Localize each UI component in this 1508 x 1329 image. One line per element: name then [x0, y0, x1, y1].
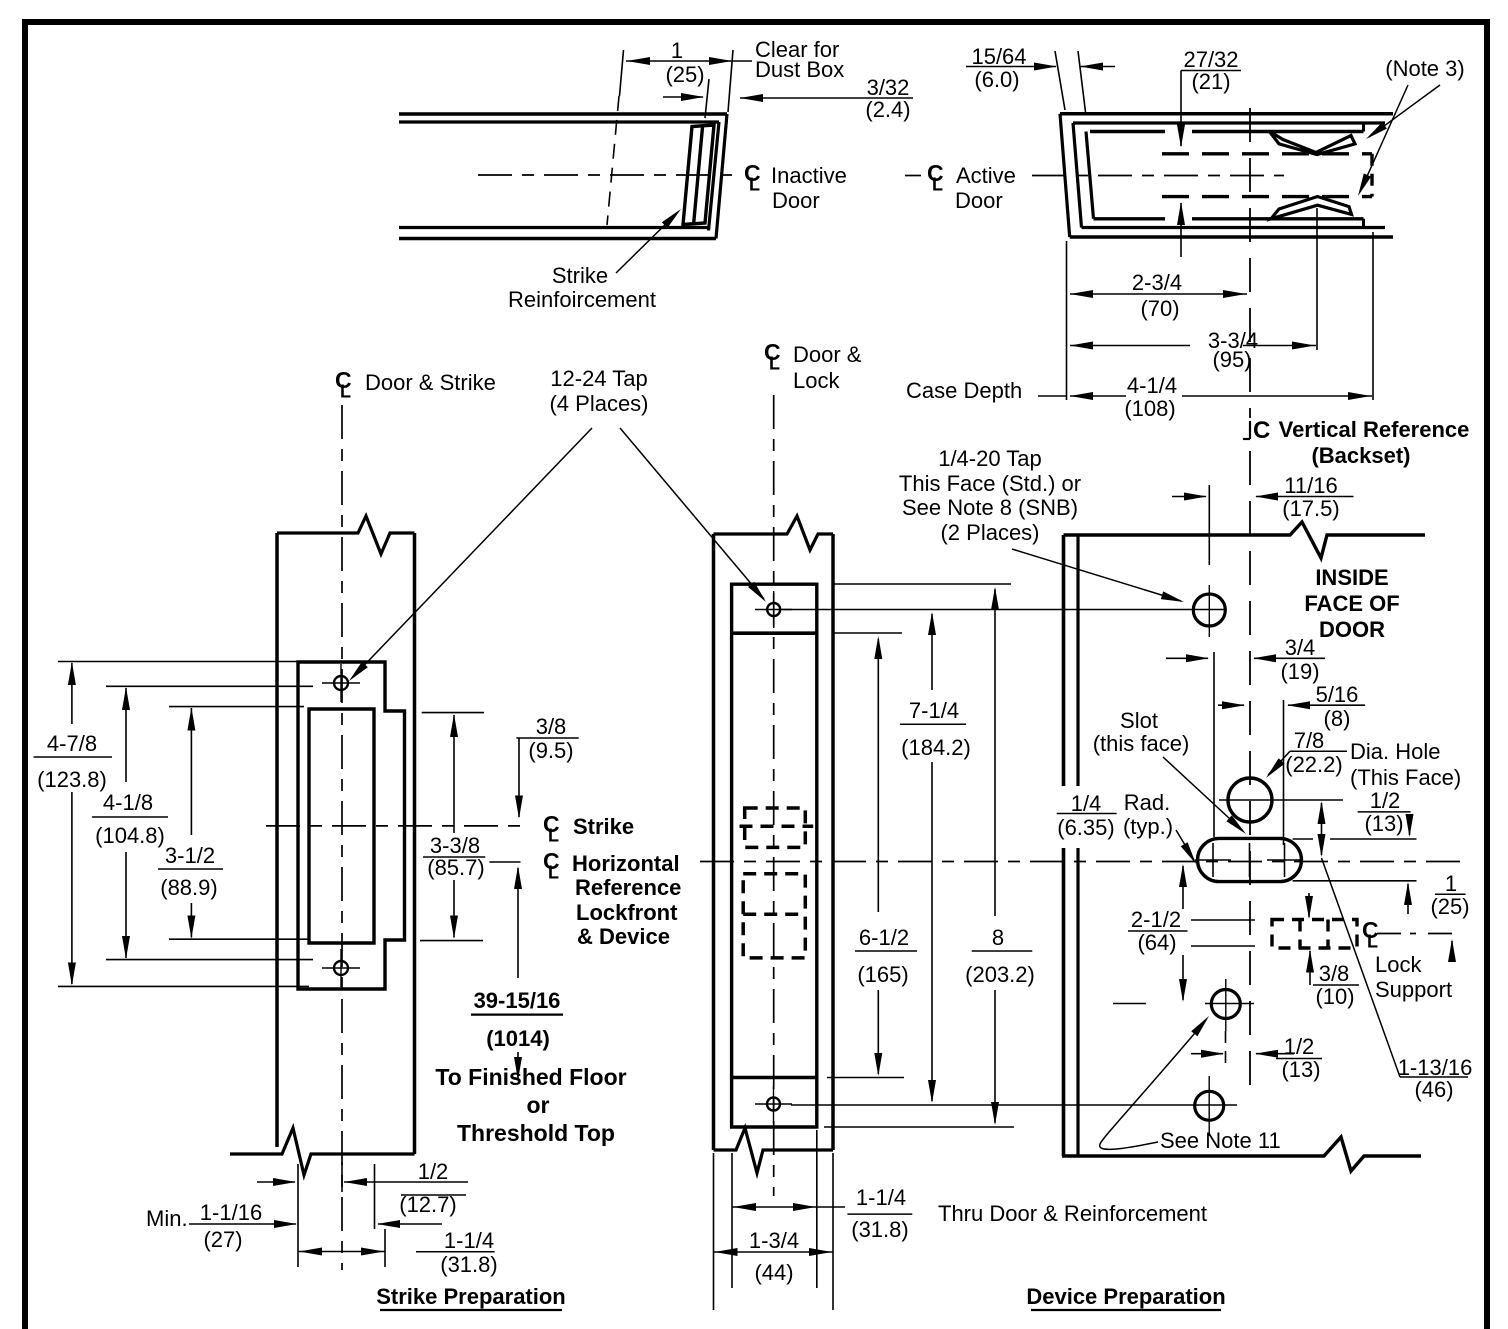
strike cutout [309, 709, 374, 943]
extension line slot right [1283, 700, 1285, 845]
svg-text:Reference: Reference [575, 875, 681, 900]
svg-text:4-1/8: 4-1/8 [103, 790, 153, 815]
svg-text:L: L [932, 175, 943, 195]
svg-text:1-1/4: 1-1/4 [444, 1228, 494, 1253]
svg-text:3/8: 3/8 [1319, 961, 1350, 986]
svg-text:(104.8): (104.8) [95, 823, 165, 848]
leader 12-24 tap to strike screw [352, 428, 592, 678]
svg-text:(31.8): (31.8) [440, 1252, 497, 1277]
svg-text:(88.9): (88.9) [160, 875, 217, 900]
svg-text:(10): (10) [1315, 984, 1354, 1009]
svg-text:Lockfront: Lockfront [576, 900, 678, 925]
strike centerline horizontal [266, 825, 523, 827]
svg-text:(184.2): (184.2) [901, 735, 971, 760]
svg-text:C: C [1253, 417, 1270, 444]
svg-text:(21): (21) [1191, 69, 1230, 94]
svg-text:Rad.: Rad. [1124, 790, 1170, 815]
svg-text:(2 Places): (2 Places) [940, 520, 1039, 545]
svg-text:L: L [340, 382, 351, 402]
svg-text:Strike: Strike [573, 814, 634, 839]
svg-text:(25): (25) [1430, 894, 1469, 919]
svg-text:(17.5): (17.5) [1282, 496, 1339, 521]
svg-text:Door &: Door & [793, 342, 862, 367]
deadbolt dashed box [743, 874, 805, 958]
extension lines strike right [422, 712, 484, 714]
hole A dashed line down [1225, 1031, 1227, 1071]
strike screw hole top [334, 676, 348, 690]
svg-text:(9.5): (9.5) [528, 738, 573, 763]
svg-text:Min.: Min. [146, 1206, 188, 1231]
svg-text:Vertical Reference: Vertical Reference [1279, 417, 1470, 442]
spring clip bottom (Note 3) [1271, 197, 1352, 219]
svg-text:Support: Support [1375, 977, 1452, 1002]
strike screw hole bottom [334, 961, 348, 975]
dimension 3/32 (2.4) arrows [663, 96, 703, 98]
dimension 3-3/8 (85.7) [453, 715, 455, 833]
svg-text:Slot: Slot [1120, 708, 1158, 733]
dimension 11/16 (17.5) [1172, 496, 1206, 498]
svg-text:(6.0): (6.0) [974, 67, 1019, 92]
svg-text:Active: Active [956, 163, 1016, 188]
svg-text:1: 1 [671, 38, 683, 63]
svg-text:Case Depth: Case Depth [906, 378, 1022, 403]
svg-text:(8): (8) [1324, 706, 1351, 731]
dimension 4-1/8 (104.8) [125, 688, 127, 782]
dimension 5/16 (8) [1218, 704, 1244, 706]
svg-text:1-1/16: 1-1/16 [200, 1200, 262, 1225]
svg-text:& Device: & Device [577, 924, 670, 949]
lockfront faceplate [732, 584, 817, 1127]
dimension 1-1/4 (31.8) lockfront [732, 1206, 845, 1208]
extension line tap hole vertical [1208, 485, 1210, 565]
svg-text:Lock: Lock [1375, 952, 1422, 977]
dimension 3-1/2 (88.9) [190, 708, 192, 835]
dimension 2-1/2 (64) [1182, 866, 1184, 909]
dimension 1/2 (13) lower [1191, 1053, 1223, 1055]
svg-text:Inactive: Inactive [771, 163, 847, 188]
svg-text:(Note 3): (Note 3) [1385, 56, 1464, 81]
svg-text:1: 1 [1445, 871, 1457, 896]
svg-text:1-1/4: 1-1/4 [856, 1185, 906, 1210]
dimension 1 (25) [620, 50, 624, 96]
svg-text:2-1/2: 2-1/2 [1131, 907, 1181, 932]
slot cross ticks [1212, 843, 1214, 877]
svg-text:(85.7): (85.7) [427, 855, 484, 880]
vertical reference symbol [1249, 421, 1251, 439]
dimension 1-3/4 (44) [714, 1251, 834, 1253]
svg-text:L: L [548, 826, 559, 846]
tap hole upper (1/4-20) [1193, 594, 1225, 626]
double arrow hole CL to reference CL [1321, 803, 1323, 855]
lockfront door strip outline [712, 534, 716, 1150]
svg-text:Door: Door [772, 188, 820, 213]
dimension 39-15/16 (1014) [517, 868, 519, 978]
spring clip top (Note 3) [1269, 131, 1355, 155]
leader 1-13/16 (46) [1322, 858, 1401, 1077]
svg-text:See Note 11: See Note 11 [1160, 1128, 1281, 1153]
svg-text:3/8: 3/8 [536, 714, 567, 739]
svg-text:12-24 Tap: 12-24 Tap [550, 366, 647, 391]
case depth end ticks [1362, 123, 1365, 132]
svg-text:(70): (70) [1140, 296, 1179, 321]
dimension 7-1/4 (184.2) [931, 614, 933, 690]
svg-text:(This Face): (This Face) [1350, 765, 1461, 790]
leader 12-24 tap to lockfront screw [620, 428, 764, 599]
svg-text:(31.8): (31.8) [851, 1217, 908, 1242]
vertical reference centerline (backset) [1249, 108, 1251, 418]
hole A upper screw [1211, 990, 1240, 1019]
horizontal reference centerline [700, 861, 1462, 863]
leaders Note 3 [1369, 85, 1440, 137]
svg-text:Thru Door & Reinforcement: Thru Door & Reinforcement [938, 1201, 1207, 1226]
strike jamb outline [275, 533, 279, 1147]
svg-text:7-1/4: 7-1/4 [909, 698, 959, 723]
hole center line [1219, 799, 1343, 801]
svg-text:(64): (64) [1137, 930, 1176, 955]
lock case outline [1086, 132, 1094, 219]
inactive door outline [399, 112, 727, 116]
slot bottom extension line [1293, 880, 1417, 882]
extension line through screws top [782, 609, 1226, 611]
svg-text:(6.35): (6.35) [1057, 815, 1114, 840]
dimension 1/2 (12.7) [257, 1181, 295, 1183]
centerline active door [1032, 175, 1284, 177]
svg-text:7/8: 7/8 [1294, 728, 1325, 753]
svg-text:1/4: 1/4 [1071, 791, 1102, 816]
svg-text:(27): (27) [203, 1227, 242, 1252]
svg-text:(Backset): (Backset) [1311, 443, 1410, 468]
svg-text:Reinfoircement: Reinfoircement [508, 287, 656, 312]
svg-text:3/4: 3/4 [1285, 635, 1316, 660]
svg-text:2-3/4: 2-3/4 [1132, 270, 1182, 295]
lockfront screw top [767, 603, 780, 616]
extension line slot left [1213, 652, 1215, 837]
svg-text:Horizontal: Horizontal [572, 851, 680, 876]
extension line faceplate inner top [834, 632, 902, 634]
svg-text:(123.8): (123.8) [37, 767, 107, 792]
svg-text:(22.2): (22.2) [1285, 752, 1342, 777]
slot top extension line [1293, 838, 1313, 840]
extension lines below lockfront [731, 1153, 733, 1288]
svg-text:(165): (165) [857, 962, 908, 987]
lock support dashed outline [1272, 920, 1357, 949]
svg-text:Lock: Lock [793, 368, 840, 393]
dimension 8 (203.2) [994, 589, 996, 916]
svg-text:(46): (46) [1414, 1077, 1453, 1102]
svg-text:11/16: 11/16 [1284, 473, 1337, 498]
dimension 6-1/2 (165) [877, 639, 879, 912]
svg-text:To Finished Floor: To Finished Floor [435, 1064, 626, 1090]
svg-text:1-3/4: 1-3/4 [749, 1228, 799, 1253]
svg-text:See Note 8 (SNB): See Note 8 (SNB) [902, 495, 1078, 520]
dust box clearance dashed line [607, 96, 619, 225]
centerline door and strike [341, 405, 343, 1270]
svg-text:8: 8 [992, 925, 1004, 950]
svg-text:1/2: 1/2 [1284, 1034, 1315, 1059]
leader See Note 11 [1100, 1020, 1206, 1149]
dimension 3-3/4 (95) [1070, 345, 1190, 347]
strike plate outline [298, 662, 405, 989]
active door outline [1060, 112, 1393, 116]
svg-text:4-7/8: 4-7/8 [47, 731, 97, 756]
svg-text:3-1/2: 3-1/2 [165, 843, 215, 868]
dimension 4-7/8 (123.8) [71, 663, 73, 724]
extension lines strike bottom [297, 1164, 299, 1267]
svg-text:(19): (19) [1280, 659, 1319, 684]
extension line faceplate bottom [824, 1126, 1014, 1128]
svg-text:(203.2): (203.2) [965, 962, 1035, 987]
svg-text:L: L [1367, 932, 1378, 952]
svg-text:(typ.): (typ.) [1123, 814, 1173, 839]
inactive door inner skin lines [399, 120, 719, 123]
hole B lower screw [1195, 1091, 1224, 1120]
centerline inactive door [478, 174, 742, 176]
svg-text:L: L [769, 354, 780, 374]
svg-text:Device Preparation: Device Preparation [1026, 1284, 1225, 1309]
hole 7/8 dia [1228, 778, 1272, 822]
leader 1/4-20 tap [1012, 549, 1181, 601]
dimension 1 (25) [1407, 884, 1409, 914]
device door outline [1064, 522, 1426, 558]
svg-text:1/2: 1/2 [1370, 788, 1401, 813]
svg-text:INSIDE: INSIDE [1315, 565, 1388, 590]
svg-text:(13): (13) [1364, 811, 1403, 836]
centerline door and lock [773, 395, 775, 1196]
svg-text:(12.7): (12.7) [399, 1192, 456, 1217]
slot obround [1198, 838, 1302, 881]
svg-text:Strike Preparation: Strike Preparation [376, 1284, 566, 1309]
svg-text:(13): (13) [1281, 1057, 1320, 1082]
svg-text:(25): (25) [665, 62, 704, 87]
svg-text:15/64: 15/64 [971, 44, 1026, 69]
lock support centerline [1377, 933, 1416, 935]
svg-text:39-15/16: 39-15/16 [474, 988, 561, 1013]
border frame [22, 19, 28, 1329]
svg-text:(108): (108) [1124, 396, 1175, 421]
svg-text:(2.4): (2.4) [865, 97, 910, 122]
svg-text:(95): (95) [1212, 347, 1251, 372]
svg-text:Door: Door [955, 188, 1003, 213]
dimension 2-3/4 (70) [1070, 293, 1247, 295]
svg-text:4-1/4: 4-1/4 [1127, 373, 1177, 398]
dimension 3/8 (10) lock support [1308, 893, 1310, 917]
active door inner skin [1073, 121, 1385, 124]
extension line faceplate inner bottom [827, 1077, 904, 1079]
mortise pocket dashed lines [1162, 152, 1372, 155]
svg-text:1/2: 1/2 [418, 1159, 449, 1184]
svg-text:This Face (Std.) or: This Face (Std.) or [899, 471, 1081, 496]
strike reinforcement channel [683, 125, 714, 225]
svg-text:Threshold Top: Threshold Top [457, 1120, 615, 1146]
svg-text:Dia. Hole: Dia. Hole [1350, 739, 1440, 764]
leader Strike Reinfoircement [616, 212, 678, 273]
dimension 1-1/4 (31.8) strike [298, 1251, 385, 1253]
svg-text:(1014): (1014) [486, 1026, 550, 1051]
svg-text:or: or [527, 1092, 550, 1118]
svg-text:(44): (44) [754, 1260, 793, 1285]
svg-text:5/16: 5/16 [1316, 682, 1359, 707]
clip tick line [1316, 208, 1318, 350]
extension lines below active door [1066, 241, 1068, 400]
latchbolt dashed box [745, 808, 806, 847]
dimension 4-1/4 (108) case depth [1070, 395, 1126, 397]
lockfront screw bottom [767, 1098, 780, 1111]
svg-text:6-1/2: 6-1/2 [859, 925, 909, 950]
svg-text:(this face): (this face) [1093, 731, 1190, 756]
dimension 15/64 (6.0) [1055, 51, 1065, 110]
svg-text:(4 Places): (4 Places) [549, 391, 648, 416]
svg-text:1/4-20 Tap: 1/4-20 Tap [938, 446, 1042, 471]
extension lines strike left [58, 661, 310, 663]
extension line faceplate top [834, 583, 1011, 585]
svg-text:FACE OF: FACE OF [1304, 591, 1399, 616]
dimension 3/4 (19) [1166, 657, 1208, 659]
svg-text:Strike: Strike [552, 263, 608, 288]
extension line through screws bottom [791, 1104, 1237, 1106]
svg-text:Door & Strike: Door & Strike [365, 370, 496, 395]
svg-text:Dust Box: Dust Box [755, 57, 844, 82]
svg-text:L: L [749, 175, 760, 195]
lock support projection lines [1191, 919, 1255, 921]
svg-text:DOOR: DOOR [1319, 617, 1385, 642]
svg-text:L: L [548, 863, 559, 883]
